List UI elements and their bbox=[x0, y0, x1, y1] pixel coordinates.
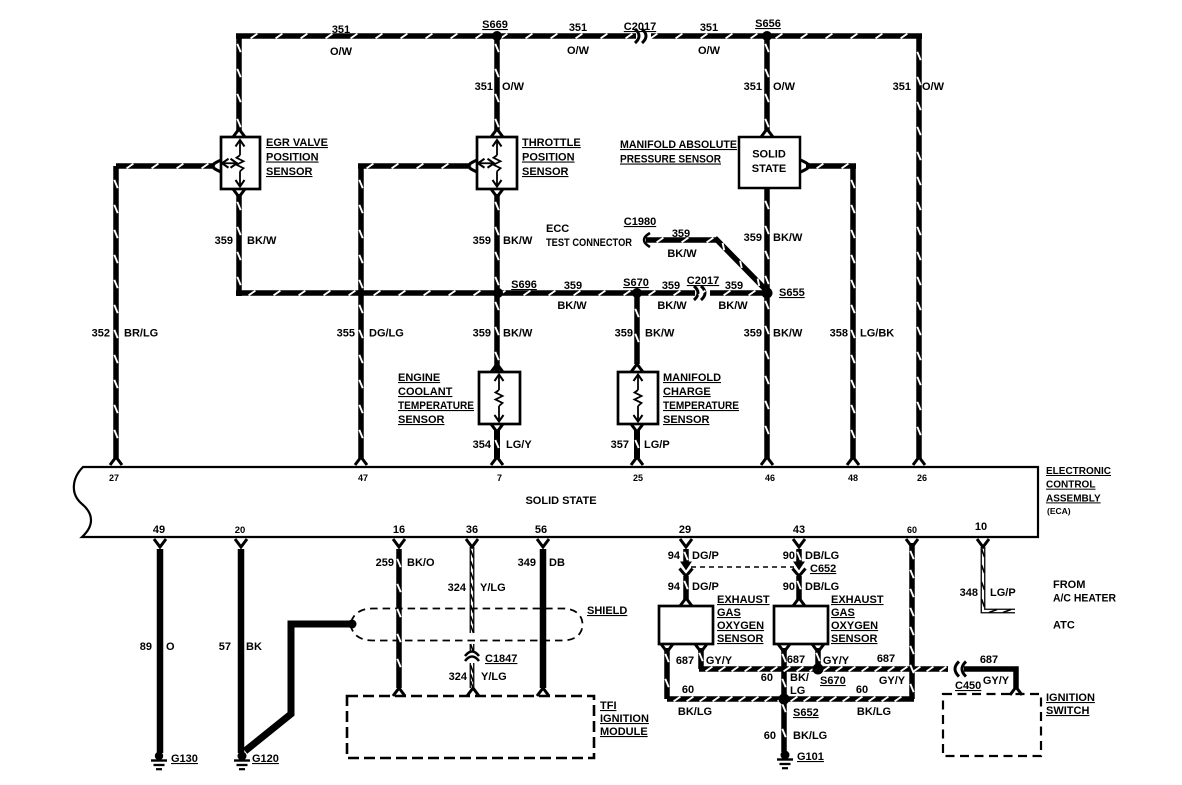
svg-text:43: 43 bbox=[793, 524, 805, 536]
svg-text:O/W: O/W bbox=[502, 81, 525, 93]
svg-text:TEST CONNECTOR: TEST CONNECTOR bbox=[546, 237, 632, 249]
svg-text:(ECA): (ECA) bbox=[1047, 506, 1071, 516]
svg-text:IGNITION: IGNITION bbox=[1046, 692, 1095, 704]
svg-text:357: 357 bbox=[611, 439, 629, 451]
svg-text:GY/Y: GY/Y bbox=[706, 655, 733, 667]
svg-text:G101: G101 bbox=[797, 751, 824, 763]
svg-text:359: 359 bbox=[725, 280, 743, 292]
svg-text:324: 324 bbox=[448, 582, 467, 594]
svg-text:355: 355 bbox=[337, 328, 355, 340]
svg-text:SENSOR: SENSOR bbox=[831, 633, 878, 645]
svg-text:BK/W: BK/W bbox=[718, 300, 748, 312]
svg-text:Y/LG: Y/LG bbox=[481, 671, 507, 683]
svg-text:G120: G120 bbox=[252, 753, 279, 765]
svg-text:LG/Y: LG/Y bbox=[506, 439, 532, 451]
svg-text:GY/Y: GY/Y bbox=[823, 655, 850, 667]
svg-text:BK/W: BK/W bbox=[657, 300, 687, 312]
svg-text:BK/W: BK/W bbox=[773, 328, 803, 340]
svg-text:352: 352 bbox=[92, 328, 110, 340]
svg-text:C1847: C1847 bbox=[485, 653, 517, 665]
svg-text:26: 26 bbox=[917, 473, 927, 483]
svg-text:ELECTRONIC: ELECTRONIC bbox=[1046, 466, 1111, 477]
svg-text:GAS: GAS bbox=[717, 607, 741, 619]
svg-text:SENSOR: SENSOR bbox=[522, 166, 569, 178]
svg-text:COOLANT: COOLANT bbox=[398, 386, 453, 398]
svg-text:57: 57 bbox=[219, 641, 231, 653]
svg-text:FROM: FROM bbox=[1053, 579, 1085, 591]
svg-text:20: 20 bbox=[235, 525, 246, 536]
svg-text:359: 359 bbox=[473, 328, 491, 340]
svg-text:DB/LG: DB/LG bbox=[805, 581, 839, 593]
svg-text:351: 351 bbox=[332, 24, 350, 36]
svg-text:BK/W: BK/W bbox=[247, 235, 277, 247]
svg-text:10: 10 bbox=[975, 521, 987, 533]
svg-text:SENSOR: SENSOR bbox=[398, 414, 445, 426]
svg-text:S655: S655 bbox=[779, 287, 805, 299]
svg-text:CHARGE: CHARGE bbox=[663, 386, 711, 398]
svg-text:BR/LG: BR/LG bbox=[124, 328, 158, 340]
svg-text:351: 351 bbox=[744, 81, 762, 93]
svg-text:358: 358 bbox=[830, 328, 848, 340]
svg-text:BK/W: BK/W bbox=[503, 235, 533, 247]
svg-text:LG/BK: LG/BK bbox=[860, 328, 894, 340]
svg-text:O/W: O/W bbox=[330, 46, 353, 58]
svg-text:94: 94 bbox=[668, 550, 681, 562]
svg-text:G130: G130 bbox=[171, 753, 198, 765]
svg-text:ENGINE: ENGINE bbox=[398, 372, 440, 384]
svg-text:S652: S652 bbox=[793, 707, 819, 719]
svg-text:MANIFOLD ABSOLUTE: MANIFOLD ABSOLUTE bbox=[620, 139, 737, 151]
svg-text:BK/W: BK/W bbox=[645, 328, 675, 340]
svg-text:DB: DB bbox=[549, 557, 565, 569]
svg-text:MODULE: MODULE bbox=[600, 726, 648, 738]
svg-text:SHIELD: SHIELD bbox=[587, 605, 627, 617]
svg-text:GY/Y: GY/Y bbox=[879, 675, 906, 687]
svg-text:S696: S696 bbox=[511, 279, 537, 291]
svg-text:60: 60 bbox=[761, 672, 773, 684]
svg-text:C2017: C2017 bbox=[687, 275, 719, 287]
svg-text:89: 89 bbox=[140, 641, 152, 653]
svg-text:CONTROL: CONTROL bbox=[1046, 480, 1095, 491]
svg-text:ASSEMBLY: ASSEMBLY bbox=[1046, 493, 1101, 504]
svg-text:687: 687 bbox=[877, 653, 895, 665]
svg-text:GY/Y: GY/Y bbox=[983, 675, 1010, 687]
svg-text:PRESSURE SENSOR: PRESSURE SENSOR bbox=[620, 154, 721, 166]
svg-text:359: 359 bbox=[672, 228, 690, 240]
svg-text:25: 25 bbox=[633, 473, 643, 483]
svg-text:359: 359 bbox=[744, 328, 762, 340]
svg-text:A/C HEATER: A/C HEATER bbox=[1053, 593, 1116, 605]
svg-text:359: 359 bbox=[662, 280, 680, 292]
svg-text:90: 90 bbox=[783, 550, 795, 562]
svg-text:BK/W: BK/W bbox=[667, 248, 697, 260]
svg-text:C2017: C2017 bbox=[624, 21, 656, 33]
svg-text:46: 46 bbox=[765, 473, 775, 483]
svg-text:LG: LG bbox=[790, 685, 805, 697]
svg-text:C450: C450 bbox=[955, 680, 981, 692]
svg-text:TEMPERATURE: TEMPERATURE bbox=[398, 400, 474, 412]
svg-text:O/W: O/W bbox=[698, 45, 721, 57]
svg-text:7: 7 bbox=[497, 473, 502, 483]
svg-text:BK/O: BK/O bbox=[407, 557, 435, 569]
svg-text:687: 687 bbox=[980, 654, 998, 666]
svg-text:POSITION: POSITION bbox=[266, 152, 319, 164]
svg-text:DG/P: DG/P bbox=[692, 550, 719, 562]
svg-text:359: 359 bbox=[744, 232, 762, 244]
svg-text:BK/: BK/ bbox=[790, 672, 809, 684]
svg-text:LG/P: LG/P bbox=[644, 439, 670, 451]
svg-text:351: 351 bbox=[569, 22, 587, 34]
svg-text:OXYGEN: OXYGEN bbox=[831, 620, 878, 632]
svg-text:359: 359 bbox=[473, 235, 491, 247]
svg-text:S656: S656 bbox=[755, 18, 781, 30]
svg-text:S669: S669 bbox=[482, 19, 508, 31]
svg-text:OXYGEN: OXYGEN bbox=[717, 620, 764, 632]
svg-text:16: 16 bbox=[393, 524, 405, 536]
svg-text:O/W: O/W bbox=[922, 81, 945, 93]
svg-text:29: 29 bbox=[679, 524, 691, 536]
svg-text:S670: S670 bbox=[820, 675, 846, 687]
svg-text:SOLID STATE: SOLID STATE bbox=[525, 495, 596, 507]
svg-text:687: 687 bbox=[787, 654, 805, 666]
svg-text:90: 90 bbox=[783, 581, 795, 593]
svg-text:EXHAUST: EXHAUST bbox=[831, 594, 884, 606]
svg-text:POSITION: POSITION bbox=[522, 152, 575, 164]
svg-text:BK: BK bbox=[246, 641, 262, 653]
svg-text:48: 48 bbox=[848, 473, 858, 483]
svg-text:C652: C652 bbox=[810, 563, 836, 575]
svg-text:BK/W: BK/W bbox=[557, 300, 587, 312]
svg-text:BK/LG: BK/LG bbox=[678, 706, 712, 718]
svg-text:GAS: GAS bbox=[831, 607, 855, 619]
svg-text:O/W: O/W bbox=[773, 81, 796, 93]
svg-text:36: 36 bbox=[466, 524, 478, 536]
svg-text:BK/W: BK/W bbox=[503, 328, 533, 340]
svg-text:49: 49 bbox=[153, 524, 165, 536]
svg-text:O/W: O/W bbox=[567, 45, 590, 57]
svg-text:DB/LG: DB/LG bbox=[805, 550, 839, 562]
svg-text:324: 324 bbox=[449, 671, 468, 683]
svg-text:TEMPERATURE: TEMPERATURE bbox=[663, 400, 739, 412]
svg-text:348: 348 bbox=[960, 587, 978, 599]
svg-text:BK/W: BK/W bbox=[773, 232, 803, 244]
svg-text:47: 47 bbox=[358, 473, 368, 483]
svg-text:94: 94 bbox=[668, 581, 681, 593]
svg-text:27: 27 bbox=[109, 473, 119, 483]
svg-text:SENSOR: SENSOR bbox=[663, 414, 710, 426]
svg-text:359: 359 bbox=[615, 328, 633, 340]
svg-text:60: 60 bbox=[856, 684, 868, 696]
svg-text:354: 354 bbox=[473, 439, 492, 451]
svg-text:351: 351 bbox=[475, 81, 493, 93]
svg-text:EXHAUST: EXHAUST bbox=[717, 594, 770, 606]
svg-text:TFI: TFI bbox=[600, 700, 617, 712]
svg-text:DG/LG: DG/LG bbox=[369, 328, 404, 340]
svg-text:THROTTLE: THROTTLE bbox=[522, 137, 581, 149]
svg-text:60: 60 bbox=[682, 684, 694, 696]
svg-text:60: 60 bbox=[764, 730, 776, 742]
svg-text:259: 259 bbox=[376, 557, 394, 569]
svg-text:351: 351 bbox=[700, 22, 718, 34]
svg-text:DG/P: DG/P bbox=[692, 581, 719, 593]
svg-text:SENSOR: SENSOR bbox=[717, 633, 764, 645]
svg-text:351: 351 bbox=[893, 81, 911, 93]
svg-text:LG/P: LG/P bbox=[990, 587, 1016, 599]
svg-text:C1980: C1980 bbox=[624, 216, 656, 228]
svg-text:ATC: ATC bbox=[1053, 620, 1075, 632]
svg-text:EGR VALVE: EGR VALVE bbox=[266, 137, 328, 149]
svg-text:349: 349 bbox=[518, 557, 536, 569]
svg-text:359: 359 bbox=[215, 235, 233, 247]
svg-text:BK/LG: BK/LG bbox=[793, 730, 827, 742]
svg-text:SWITCH: SWITCH bbox=[1046, 705, 1089, 717]
svg-text:359: 359 bbox=[564, 280, 582, 292]
svg-text:BK/LG: BK/LG bbox=[857, 706, 891, 718]
svg-text:60: 60 bbox=[907, 525, 917, 535]
svg-text:SENSOR: SENSOR bbox=[266, 166, 313, 178]
svg-text:ECC: ECC bbox=[546, 223, 569, 235]
svg-text:S670: S670 bbox=[623, 277, 649, 289]
svg-text:IGNITION: IGNITION bbox=[600, 713, 649, 725]
svg-text:STATE: STATE bbox=[752, 163, 786, 175]
svg-text:MANIFOLD: MANIFOLD bbox=[663, 372, 721, 384]
svg-text:56: 56 bbox=[535, 524, 547, 536]
svg-text:SOLID: SOLID bbox=[752, 149, 786, 161]
svg-text:Y/LG: Y/LG bbox=[480, 582, 506, 594]
svg-text:687: 687 bbox=[676, 655, 694, 667]
svg-text:O: O bbox=[166, 641, 175, 653]
